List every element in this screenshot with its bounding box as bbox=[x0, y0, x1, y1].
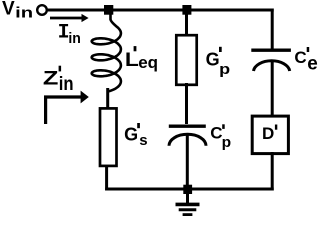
label Cp bbox=[210, 124, 231, 152]
wire right branch top bbox=[271, 9, 274, 50]
svg-text:V: V bbox=[2, 0, 15, 19]
inductor L_eq bbox=[92, 15, 121, 92]
capacitor Cp bbox=[169, 126, 206, 146]
terminal Vin bbox=[37, 5, 47, 15]
svg-text:D: D bbox=[262, 124, 274, 143]
svg-text:p: p bbox=[219, 61, 230, 78]
node junction J1 bbox=[104, 5, 113, 15]
label Gp bbox=[206, 47, 231, 78]
diode box D bbox=[252, 116, 288, 154]
svg-text:in: in bbox=[68, 30, 81, 47]
wire Ce to D bbox=[271, 60, 274, 118]
wire L to Gs bbox=[106, 88, 109, 109]
svg-text:in: in bbox=[59, 74, 74, 95]
label D bbox=[262, 124, 277, 143]
label L_eq bbox=[125, 46, 158, 72]
svg-text:in: in bbox=[15, 5, 33, 22]
wire top rail bbox=[47, 9, 274, 12]
wire J2 to Gp bbox=[185, 12, 188, 37]
current arrow Iin bbox=[50, 14, 89, 22]
svg-text:L: L bbox=[125, 50, 139, 71]
svg-text:C: C bbox=[294, 48, 306, 67]
svg-text:G: G bbox=[206, 49, 220, 69]
label Zin bbox=[43, 66, 74, 95]
node junction ground bbox=[183, 185, 192, 194]
svg-text:G: G bbox=[124, 124, 138, 144]
svg-text:p: p bbox=[222, 134, 232, 151]
impedance arrow Zin bbox=[46, 91, 89, 124]
node junction J2 bbox=[182, 5, 191, 15]
wire Gp to Cp bbox=[185, 83, 188, 124]
svg-text:e: e bbox=[307, 54, 318, 75]
svg-text:Z: Z bbox=[43, 68, 59, 89]
wire Gs to bottom rail bbox=[107, 165, 120, 189]
resistor Gp bbox=[176, 35, 196, 85]
label Ce bbox=[294, 47, 317, 75]
label Gs bbox=[124, 123, 147, 149]
label Iin bbox=[58, 22, 81, 47]
wire D to bottom rail bbox=[271, 152, 274, 191]
wire bottom rail bbox=[105, 188, 274, 191]
capacitor Ce bbox=[251, 50, 291, 71]
resistor Gs bbox=[100, 108, 117, 165]
wire Cp to ground rail bbox=[186, 135, 189, 188]
svg-text:eq: eq bbox=[138, 53, 158, 72]
ground symbol bbox=[176, 193, 200, 215]
label Vin bbox=[2, 0, 33, 22]
svg-text:s: s bbox=[139, 132, 147, 149]
